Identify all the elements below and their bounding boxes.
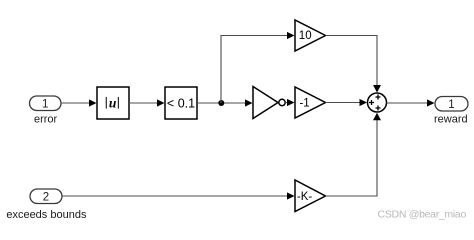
wire gain -K- to sum [326, 113, 382, 196]
wire sum to outport [387, 99, 435, 106]
svg-text:reward: reward [434, 114, 468, 126]
wire NOT to gain -1 [285, 99, 294, 106]
outport 1 [435, 97, 468, 112]
wire inport2 to gain -K- [62, 192, 295, 199]
svg-text:exceeds bounds: exceeds bounds [6, 209, 87, 221]
wire abs to compare [129, 99, 165, 106]
compare block < 0.1 [165, 87, 197, 119]
wire junction up to gain 10 [221, 32, 295, 103]
svg-text:u: u [109, 96, 117, 111]
wire inport1 to abs [61, 99, 97, 106]
svg-text:-1: -1 [299, 97, 309, 109]
svg-text:10: 10 [299, 30, 312, 42]
abs block U1 |u| [97, 87, 129, 119]
NOT gate [253, 87, 285, 119]
junction node [218, 100, 224, 106]
gain 10 [295, 20, 326, 51]
svg-text:error: error [34, 114, 58, 126]
sum block [368, 93, 387, 112]
svg-text:CSDN @bear_miao: CSDN @bear_miao [378, 209, 467, 221]
svg-text:2: 2 [43, 191, 49, 203]
svg-text:< 0.1: < 0.1 [167, 97, 195, 111]
svg-text:-K-: -K- [297, 191, 313, 203]
wire gain -1 to sum [326, 99, 368, 106]
inport 1 [30, 96, 62, 111]
gain -1 [295, 87, 326, 118]
svg-text:1: 1 [448, 99, 454, 111]
gain -K- [295, 180, 326, 212]
inport 2 [30, 189, 62, 204]
svg-text:1: 1 [42, 98, 48, 110]
wire gain 10 to sum [326, 36, 382, 93]
wire compare to NOT gate [197, 99, 253, 106]
